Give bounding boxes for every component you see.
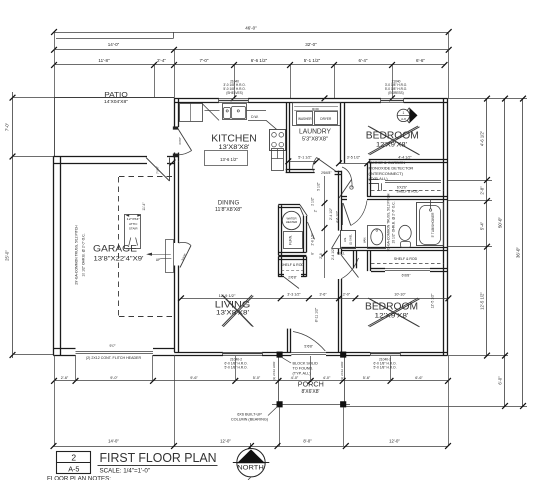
garage top wall with service door opening	[53, 156, 147, 158]
bottom dimension row A	[54, 380, 448, 382]
svg-text:2'6/6'8": 2'6/6'8"	[321, 171, 331, 175]
svg-text:14'-0": 14'-0"	[108, 439, 119, 444]
svg-text:5'-0 1/8" H.R.O.: 5'-0 1/8" H.R.O.	[224, 366, 247, 370]
svg-text:COLUMN (BEARING): COLUMN (BEARING)	[231, 418, 269, 422]
svg-text:LIVING: LIVING	[215, 299, 251, 310]
bath linen shelves	[341, 231, 356, 249]
dining pantry cabinets	[272, 149, 284, 171]
svg-text:ROD: ROD	[312, 107, 320, 111]
svg-text:5'-1 1/2": 5'-1 1/2"	[304, 58, 321, 63]
svg-text:2'-8: 2'-8	[319, 253, 323, 259]
laundry-bedroom1 divider wall	[340, 103, 342, 163]
kitchen counter back line	[205, 110, 220, 112]
bedroom1 closet front	[369, 179, 379, 181]
svg-text:A-8: A-8	[401, 117, 406, 121]
svg-text:BLOCK SOLID: BLOCK SOLID	[293, 361, 319, 365]
svg-text:DINING: DINING	[218, 199, 240, 206]
hall closet door triangle	[332, 235, 340, 249]
svg-text:2'/6'8": 2'/6'8"	[288, 275, 297, 279]
toilet	[401, 242, 411, 248]
svg-text:11'-4": 11'-4"	[142, 202, 146, 211]
svg-text:(EGRESS): (EGRESS)	[388, 91, 403, 95]
svg-text:(SHELVES): (SHELVES)	[226, 91, 243, 95]
svg-text:PATIO: PATIO	[104, 92, 128, 99]
svg-text:14'-0": 14'-0"	[108, 42, 120, 47]
dryer	[315, 112, 338, 125]
svg-text:6'-6": 6'-6"	[416, 58, 425, 63]
svg-text:12'-0": 12'-0"	[389, 439, 400, 444]
svg-text:GARAGE: GARAGE	[93, 244, 137, 255]
svg-text:12'-9 1/2": 12'-9 1/2"	[219, 293, 236, 298]
kitchen sink unit	[223, 104, 247, 120]
svg-text:6'-4": 6'-4"	[359, 58, 368, 63]
bath bottom wall	[341, 247, 447, 249]
svg-text:3'-3 1/2": 3'-3 1/2"	[287, 293, 301, 297]
hall-bath wall	[338, 171, 340, 231]
svg-text:2: 2	[71, 452, 76, 462]
bedroom 2 window	[370, 352, 400, 354]
svg-text:ATTIC: ATTIC	[129, 222, 138, 226]
kitchen corner cabinet	[180, 104, 203, 122]
svg-text:2'-6": 2'-6"	[61, 376, 69, 380]
svg-text:DRYER: DRYER	[320, 117, 332, 121]
porch bottom edge	[272, 404, 350, 406]
svg-text:6'-6": 6'-6"	[415, 376, 423, 380]
porch sliding door	[291, 352, 326, 354]
svg-text:7'-0": 7'-0"	[200, 58, 209, 63]
svg-text:36'-0": 36'-0"	[516, 247, 521, 258]
bedroom 1 door leaf	[339, 180, 352, 199]
svg-text:12"X54": 12"X54"	[127, 217, 140, 221]
top wall tick marks	[231, 95, 237, 101]
svg-text:3'-6": 3'-6"	[319, 293, 327, 297]
right dimension line inner	[486, 99, 488, 356]
svg-text:2'-0": 2'-0"	[343, 293, 351, 297]
dimension row 11'-8 2'-4 7'-0 6'-6 1/2 5'-1 1/2 6'-4 6'-6	[54, 64, 445, 66]
porch posts	[277, 352, 283, 358]
laundry bottom wall	[286, 169, 315, 171]
kitchen window	[219, 98, 248, 100]
svg-text:4'-0": 4'-0"	[323, 376, 331, 380]
svg-text:LIN.: LIN.	[343, 237, 347, 242]
svg-text:A-5: A-5	[68, 464, 79, 473]
svg-text:LAUNDRY: LAUNDRY	[299, 126, 331, 135]
bedroom2 closet front wall with sliding doors	[371, 268, 385, 270]
svg-text:STAIR: STAIR	[129, 226, 138, 230]
kitchen counter front edge	[248, 120, 266, 122]
house bottom wall	[174, 355, 223, 357]
svg-text:7'-0": 7'-0"	[5, 122, 10, 131]
svg-text:VAN.: VAN.	[363, 237, 367, 244]
linen closet below water heater	[278, 257, 280, 277]
patio door leaf and swing	[178, 129, 192, 151]
svg-text:5'-4": 5'-4"	[480, 221, 485, 230]
svg-text:12'X9'X8': 12'X9'X8'	[376, 142, 407, 148]
svg-text:4'-4 1/2": 4'-4 1/2"	[398, 155, 412, 159]
svg-text:14'X04'X8": 14'X04'X8"	[104, 99, 128, 104]
svg-text:2'-4 1/2": 2'-4 1/2"	[331, 247, 335, 260]
porch door wall stub	[287, 329, 289, 352]
bottom dimension row B	[54, 446, 449, 448]
laundry unit enclosure	[293, 103, 341, 126]
svg-text:50'-0": 50'-0"	[498, 217, 503, 228]
bathtub	[417, 203, 444, 246]
laundry interior dim line	[288, 161, 316, 163]
furnace	[284, 232, 303, 249]
svg-text:NORTH: NORTH	[237, 465, 264, 472]
hall-bed2 wall	[338, 249, 340, 255]
garage door header	[76, 351, 154, 353]
bedroom 2 door swing	[341, 255, 358, 278]
bedroom1 closet left wall	[367, 163, 369, 197]
svg-text:7'/6'8": 7'/6'8"	[156, 166, 160, 174]
svg-text:2 1/2": 2 1/2"	[311, 196, 315, 205]
svg-text:8': 8'	[311, 252, 315, 255]
svg-text:12'-5 1/2": 12'-5 1/2"	[431, 293, 435, 309]
svg-text:13'-6 1/2": 13'-6 1/2"	[220, 157, 238, 162]
svg-text:12'-0": 12'-0"	[220, 439, 231, 444]
garage corner tick	[170, 160, 176, 166]
svg-text:29'-GA-COMMON TRUSS, 5/12 PITC: 29'-GA-COMMON TRUSS, 5/12 PITCH	[75, 225, 79, 285]
water heater closet	[278, 205, 280, 255]
svg-text:2': 2'	[314, 209, 318, 212]
range	[270, 130, 286, 151]
living room window	[223, 352, 262, 354]
svg-text:12'X9'X8': 12'X9'X8'	[375, 314, 409, 320]
svg-text:6'-6 1/2": 6'-6 1/2"	[251, 58, 268, 63]
bedroom 1 window	[381, 98, 404, 100]
garage size leader arrow	[149, 254, 171, 256]
patio outline	[54, 97, 174, 99]
svg-text:30'-GA-COMMON TRUSS, 5/12 PITC: 30'-GA-COMMON TRUSS, 5/12 PITCH	[387, 193, 391, 251]
svg-text:5'-6": 5'-6"	[363, 376, 371, 380]
left dimension line 7'-0" and 25'-0"	[12, 92, 14, 358]
svg-text:13'8"X22'4"X9': 13'8"X22'4"X9'	[94, 256, 144, 262]
svg-text:BEDROOM: BEDROOM	[365, 301, 418, 312]
bedroom1 bottom wall	[369, 159, 448, 161]
svg-text:MONOXIDE DETECTOR: MONOXIDE DETECTOR	[369, 166, 414, 171]
washer	[297, 112, 313, 125]
svg-text:1: 1	[403, 111, 405, 115]
bedroom 1 ceiling fan symbol	[403, 108, 409, 124]
svg-text:SHELF & ROD: SHELF & ROD	[281, 263, 305, 267]
svg-text:32'-0": 32'-0"	[305, 42, 317, 47]
bedroom2 left wall upper stub	[353, 251, 355, 269]
svg-text:BEDROOM: BEDROOM	[366, 130, 419, 141]
porch side lines	[278, 357, 280, 403]
garage ceiling dashed outline	[118, 177, 120, 317]
block solid note	[282, 357, 292, 363]
water heater	[282, 211, 300, 229]
bedroom1 closet rod dashed	[371, 190, 444, 192]
bath top wall with door opening	[341, 196, 347, 198]
svg-text:FIRST FLOOR PLAN: FIRST FLOOR PLAN	[100, 450, 217, 465]
bath door leaf	[343, 203, 351, 226]
svg-text:13'X8'X8': 13'X8'X8'	[219, 145, 250, 151]
svg-text:WASHER: WASHER	[298, 117, 312, 121]
svg-text:2'-4 1/2": 2'-4 1/2"	[329, 207, 333, 220]
right dimension line outer 36'-0	[522, 99, 524, 406]
svg-text:2'-4": 2'-4"	[157, 58, 166, 63]
svg-text:9'/7': 9'/7'	[109, 344, 115, 348]
svg-text:11'-8": 11'-8"	[98, 58, 110, 63]
svg-text:5'-1 1/2": 5'-1 1/2"	[298, 156, 312, 160]
svg-text:SHELF & ROD: SHELF & ROD	[397, 189, 420, 193]
interior dim line through living and bedroom 2	[181, 298, 448, 300]
water heater closet door leaf	[308, 222, 315, 239]
svg-text:4'-0": 4'-0"	[291, 376, 299, 380]
svg-text:FLOOR PLAN NOTES:: FLOOR PLAN NOTES:	[47, 475, 111, 480]
laundry door leaf	[317, 158, 336, 172]
svg-text:10 1/2" OHR.B. @ 2'-0" O.C.: 10 1/2" OHR.B. @ 2'-0" O.C.	[82, 233, 86, 276]
kitchen-laundry divider wall	[286, 103, 288, 173]
title block number box	[57, 452, 91, 474]
svg-text:3'/6'8": 3'/6'8"	[178, 137, 182, 145]
house right wall	[447, 98, 449, 355]
svg-text:46'-0": 46'-0"	[245, 26, 257, 31]
right extension lines	[448, 98, 528, 100]
svg-text:SMOKE & CARBON: SMOKE & CARBON	[369, 160, 406, 165]
svg-text:8'-0": 8'-0"	[303, 439, 312, 444]
svg-text:6X6 BUILT-UP: 6X6 BUILT-UP	[237, 412, 262, 416]
attic stair	[125, 215, 141, 249]
hall vertical dim line	[324, 176, 326, 278]
porch door swing arc	[293, 332, 325, 352]
vanity with sink	[368, 226, 386, 249]
svg-text:10 1/2" OHR.B. @ 2'-0" O.C.: 10 1/2" OHR.B. @ 2'-0" O.C.	[392, 201, 396, 243]
garage bottom wall with garage door opening	[53, 348, 75, 350]
svg-text:(2) 2X12 HDR: (2) 2X12 HDR	[272, 361, 276, 381]
svg-text:4'-6 1/2": 4'-6 1/2"	[480, 130, 485, 146]
dimension row 14'-0" / 32'-0"	[54, 49, 449, 51]
svg-text:KITCHEN: KITCHEN	[211, 133, 257, 144]
svg-text:FURN.: FURN.	[289, 235, 293, 245]
svg-text:(2) SHEL: (2) SHEL	[349, 233, 353, 245]
wall end cap at patio door	[173, 127, 178, 130]
svg-text:UP: UP	[156, 258, 161, 262]
svg-text:2'-8": 2'-8"	[480, 186, 485, 195]
garage-house door leaf	[180, 246, 191, 268]
svg-text:5' TUB/SHOWER: 5' TUB/SHOWER	[431, 212, 435, 238]
svg-text:(TYP. ALL): (TYP. ALL)	[293, 371, 312, 375]
svg-text:11'8"X8'X8": 11'8"X8'X8"	[215, 207, 242, 213]
bedroom 2 ceiling X brace	[368, 298, 418, 326]
svg-text:(2) 2X12 CONT. FLITCH HEADER: (2) 2X12 CONT. FLITCH HEADER	[86, 356, 142, 360]
bottom extension lines	[54, 355, 56, 446]
garage left wall	[53, 157, 55, 356]
svg-text:8'-11 1/2": 8'-11 1/2"	[315, 307, 319, 322]
svg-text:9'-6": 9'-6"	[190, 376, 198, 380]
svg-text:5'-0 1/8" H.R.O.: 5'-0 1/8" H.R.O.	[373, 366, 396, 370]
dimension row 46'-0" overall width	[54, 32, 449, 34]
svg-text:5 1/2": 5 1/2"	[317, 181, 321, 190]
house left wall upper (patio side)	[174, 98, 176, 127]
svg-text:5'3"X8'X8": 5'3"X8'X8"	[302, 136, 328, 142]
svg-text:12'-5 1/2": 12'-5 1/2"	[480, 292, 485, 310]
svg-text:3'/6'8": 3'/6'8"	[180, 253, 187, 262]
patio roof line	[56, 38, 174, 40]
kitchen interior dim box	[205, 151, 248, 166]
svg-text:PORCH: PORCH	[298, 382, 324, 389]
garage service door leaf	[169, 158, 171, 182]
UP step at garage door	[166, 240, 174, 273]
svg-text:10'-10": 10'-10"	[394, 293, 406, 297]
svg-text:(2) 2X12 HDR: (2) 2X12 HDR	[340, 361, 344, 381]
svg-text:6'-0": 6'-0"	[498, 376, 503, 385]
garage house shared wall	[174, 161, 176, 243]
north arrow	[237, 449, 265, 477]
living ceiling X brace	[222, 295, 252, 326]
svg-text:SCALE: 1/4"=1'-0": SCALE: 1/4"=1'-0"	[100, 467, 150, 474]
svg-text:25'-0": 25'-0"	[5, 250, 10, 261]
top extension lines	[54, 32, 56, 98]
svg-text:6'/6'8": 6'/6'8"	[402, 274, 412, 278]
svg-text:D.W.: D.W.	[251, 115, 258, 119]
bedroom 1 ceiling X brace	[368, 126, 418, 154]
svg-text:8'X6'X8': 8'X6'X8'	[302, 389, 320, 395]
svg-text:13'X8'X8': 13'X8'X8'	[216, 310, 249, 316]
house top wall	[174, 98, 219, 100]
svg-text:HEATER: HEATER	[286, 220, 298, 224]
bedroom2-living wall	[338, 279, 340, 352]
svg-text:5'/6'8": 5'/6'8"	[304, 344, 313, 348]
svg-text:2'-8 1/2": 2'-8 1/2"	[311, 233, 315, 246]
svg-text:5'-0": 5'-0"	[253, 376, 261, 380]
bedroom1 door dim line	[339, 163, 367, 165]
right dimension line middle 50'-0 and 6'-0	[504, 99, 506, 406]
svg-text:SHELF & ROD: SHELF & ROD	[394, 257, 418, 261]
svg-text:3'-5 1/2": 3'-5 1/2"	[347, 155, 361, 159]
svg-text:9'-0": 9'-0"	[110, 376, 118, 380]
bedroom2 closet left wall	[367, 251, 369, 272]
